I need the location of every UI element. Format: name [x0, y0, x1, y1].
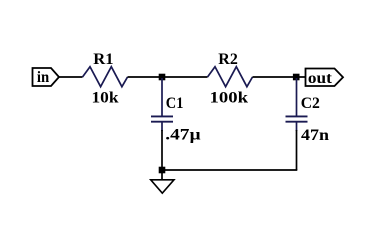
wire R1 to R2 through node — [128, 76, 208, 78]
svg-text:.47µ: .47µ — [165, 127, 200, 144]
ground lead wire — [161, 172, 163, 180]
wire C1 to ground node — [161, 130, 163, 170]
resistor R1 — [83, 67, 128, 87]
ground — [151, 180, 174, 193]
junction node 2 — [293, 74, 300, 81]
svg-text:R1: R1 — [93, 51, 113, 68]
resistor R2 — [208, 67, 253, 87]
wire R2 to out-flag — [253, 76, 306, 78]
net flag "out" — [306, 69, 344, 88]
net flag "in" — [33, 68, 60, 86]
svg-text:out: out — [308, 70, 333, 87]
svg-text:C1: C1 — [166, 95, 184, 112]
svg-text:in: in — [37, 69, 49, 86]
capacitor C1 — [151, 78, 173, 131]
svg-text:C2: C2 — [301, 95, 320, 112]
capacitor C2 — [286, 78, 308, 131]
bottom rail wire — [162, 169, 297, 171]
junction node 1 — [159, 74, 166, 81]
svg-text:100k: 100k — [210, 90, 249, 107]
wire in-flag to R1 — [59, 76, 83, 78]
junction node 3 — [159, 167, 166, 174]
svg-text:10k: 10k — [92, 90, 119, 107]
wire C2 down to bottom rail — [296, 130, 298, 170]
svg-text:R2: R2 — [218, 51, 238, 68]
svg-text:47n: 47n — [301, 127, 329, 144]
